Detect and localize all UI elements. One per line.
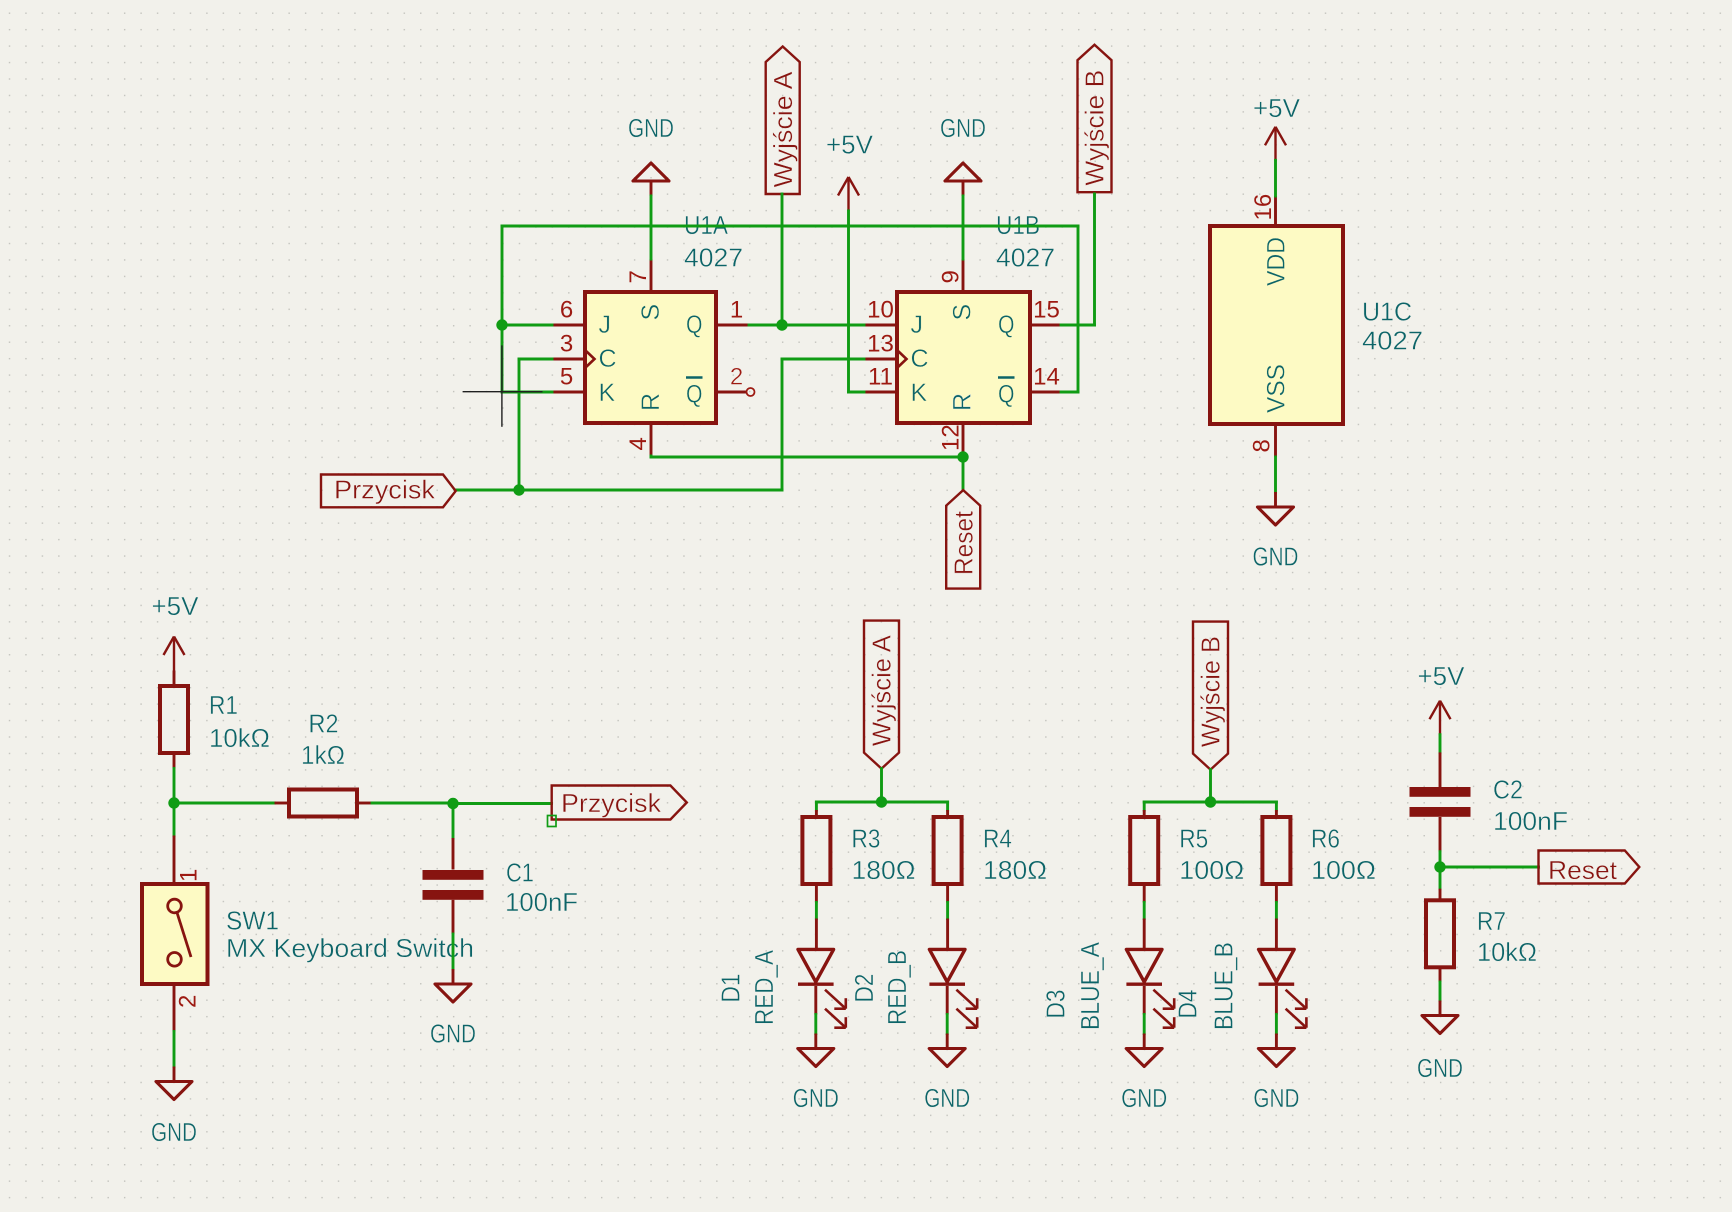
junction Wyjście A split bbox=[876, 796, 887, 807]
wire D2 to GND bbox=[946, 1015, 949, 1034]
wire reset node down to label bbox=[962, 457, 965, 490]
wire R7 to GND bbox=[1439, 982, 1442, 1001]
ground symbol below D3 bbox=[1121, 1034, 1167, 1114]
svg-text:12: 12 bbox=[938, 424, 965, 451]
wire R5 to D3 bbox=[1143, 903, 1146, 919]
svg-text:R: R bbox=[949, 393, 977, 411]
svg-text:D2: D2 bbox=[849, 974, 879, 1003]
D1 anode pin bbox=[815, 919, 818, 950]
power symbol +5V above R1 bbox=[152, 591, 200, 671]
C2 top pin bbox=[1439, 752, 1442, 787]
svg-text:S: S bbox=[637, 304, 665, 321]
svg-text:10kΩ: 10kΩ bbox=[1477, 937, 1537, 967]
U1A pin 3 (C clock) bbox=[552, 331, 585, 360]
LED D4 (BLUE_B) bbox=[1259, 949, 1307, 1027]
junction reset node at U1B pin 12 bbox=[957, 451, 968, 462]
svg-text:7: 7 bbox=[625, 270, 652, 283]
resistor R6 body bbox=[1262, 817, 1290, 884]
ground symbol below R7 bbox=[1417, 1001, 1463, 1084]
svg-text:4027: 4027 bbox=[996, 243, 1055, 273]
svg-text:SW1: SW1 bbox=[226, 906, 279, 936]
D1 cathode pin bbox=[814, 986, 817, 1015]
wire GND to U1B pin 9 bbox=[962, 196, 965, 259]
svg-text:4027: 4027 bbox=[1362, 326, 1423, 356]
svg-text:13: 13 bbox=[867, 331, 894, 358]
svg-text:+5V: +5V bbox=[826, 130, 874, 160]
svg-text:R6: R6 bbox=[1311, 824, 1340, 854]
svg-text:R1: R1 bbox=[209, 690, 238, 720]
wire Wyjście B label down bbox=[1093, 194, 1096, 325]
svg-text:GND: GND bbox=[151, 1117, 197, 1147]
C2 bottom pin bbox=[1439, 817, 1442, 852]
resistor R3 body bbox=[802, 817, 830, 884]
svg-text:C2: C2 bbox=[1493, 775, 1523, 805]
svg-text:GND: GND bbox=[1253, 542, 1299, 572]
U1C pin 8 (VSS) bbox=[1249, 424, 1276, 457]
svg-text:100Ω: 100Ω bbox=[1179, 855, 1244, 885]
svg-text:5: 5 bbox=[560, 364, 573, 391]
wire U1A J/K feedback top horizontal bbox=[502, 225, 1078, 228]
R7 top pin bbox=[1439, 889, 1442, 901]
R5 bottom pin bbox=[1143, 884, 1146, 903]
junction R1/R2/SW1 node bbox=[168, 797, 179, 808]
R2 right pin bbox=[357, 802, 372, 805]
ground symbol above U1B pin 9 bbox=[940, 113, 986, 196]
global label Reset (right) bbox=[1539, 851, 1640, 886]
U1A pin 6 (J) bbox=[552, 297, 585, 326]
svg-text:GND: GND bbox=[430, 1019, 476, 1049]
svg-text:Reset: Reset bbox=[1548, 855, 1618, 885]
global label Wyjście A (top) bbox=[766, 47, 800, 195]
mouse cursor crosshair bbox=[463, 345, 543, 426]
U1B pin name Q-bar bbox=[998, 378, 1015, 409]
junction R2/C1/Przycisk bbox=[447, 798, 458, 809]
resistor R1 body bbox=[160, 686, 188, 753]
svg-text:100Ω: 100Ω bbox=[1311, 855, 1376, 885]
svg-text:D4: D4 bbox=[1173, 990, 1203, 1019]
wire label A to junction bbox=[880, 769, 883, 802]
U1B pin 15 (Q) bbox=[1030, 297, 1063, 326]
svg-text:C1: C1 bbox=[506, 858, 534, 888]
resistor R2 body bbox=[289, 790, 357, 817]
resistor R4 body bbox=[934, 817, 962, 884]
junction Q of U1A / label A node bbox=[776, 319, 787, 330]
wire Przycisk horizontal bbox=[456, 489, 782, 492]
capacitor C1 bbox=[423, 870, 484, 900]
junction Wyjście B split bbox=[1205, 796, 1216, 807]
wire Wyjście A label down to Q node bbox=[781, 194, 784, 325]
SW1 pin 2 bbox=[174, 984, 202, 1032]
svg-text:R2: R2 bbox=[309, 709, 339, 739]
svg-text:GND: GND bbox=[1121, 1083, 1167, 1113]
svg-text:16: 16 bbox=[1250, 194, 1277, 221]
wire U1C pin 8 to GND bbox=[1274, 457, 1277, 492]
IC U1B body (4027 dual JK flip-flop, unit B) bbox=[897, 292, 1030, 423]
wire feedback vertical right (to U1B Q-bar) bbox=[1077, 226, 1080, 392]
svg-text:9: 9 bbox=[938, 270, 965, 283]
junction at U1A J node bbox=[496, 319, 507, 330]
svg-text:+5V: +5V bbox=[152, 591, 200, 621]
svg-text:11: 11 bbox=[868, 364, 893, 391]
svg-text:Wyjście A: Wyjście A bbox=[867, 634, 897, 746]
svg-text:1: 1 bbox=[730, 297, 743, 324]
resistor R5 body bbox=[1130, 817, 1158, 884]
U1B pin 14 (Q-bar) bbox=[1030, 364, 1063, 393]
wire clock A vertical bbox=[518, 359, 521, 490]
svg-text:10kΩ: 10kΩ bbox=[209, 723, 270, 753]
switch SW1 body (MX keyboard switch) bbox=[142, 884, 208, 984]
svg-text:180Ω: 180Ω bbox=[852, 855, 916, 885]
svg-text:Wyjście B: Wyjście B bbox=[1196, 636, 1226, 747]
svg-text:R3: R3 bbox=[852, 824, 881, 854]
svg-text:RED_A: RED_A bbox=[749, 949, 779, 1025]
svg-text:15: 15 bbox=[1033, 297, 1060, 324]
global label Wyjście B (bottom) bbox=[1193, 622, 1228, 770]
wire junction to Reset label bbox=[1440, 866, 1539, 869]
R3 top pin bbox=[815, 810, 818, 817]
wire R4 to D2 bbox=[946, 903, 949, 919]
wire Wyjście B to U1B pin 15 bbox=[1061, 324, 1095, 327]
svg-text:2: 2 bbox=[730, 364, 743, 391]
power symbol +5V above C2 bbox=[1418, 661, 1466, 735]
wire to U1B pin 13 bbox=[782, 358, 864, 361]
R1 bottom pin bbox=[173, 753, 176, 769]
svg-text:Wyjście A: Wyjście A bbox=[768, 71, 798, 188]
wire R2 to C1 junction bbox=[372, 802, 454, 805]
svg-text:6: 6 bbox=[560, 297, 573, 324]
SW1 pin 1 bbox=[174, 836, 203, 900]
wire +5V to C2 bbox=[1439, 735, 1442, 753]
R6 top pin bbox=[1275, 810, 1278, 817]
wire SW1 pin 2 to GND bbox=[173, 1032, 176, 1067]
wire down to R3 bbox=[815, 802, 818, 810]
svg-text:GND: GND bbox=[628, 113, 674, 143]
wire R1 to junction bbox=[173, 769, 176, 804]
U1B pin 12 (R reset) bbox=[938, 423, 965, 456]
svg-text:Q: Q bbox=[998, 311, 1015, 339]
svg-text:VDD: VDD bbox=[1263, 237, 1291, 286]
wire C1 to GND bbox=[452, 934, 455, 969]
svg-text:C: C bbox=[911, 345, 929, 373]
wire D3 to GND bbox=[1143, 1015, 1146, 1034]
svg-text:J: J bbox=[599, 311, 612, 339]
wire +5V to U1C pin 16 bbox=[1274, 160, 1277, 196]
ground symbol above U1A pin 7 bbox=[628, 113, 674, 196]
svg-text:1: 1 bbox=[176, 869, 203, 882]
C1 bottom pin bbox=[452, 900, 455, 934]
svg-text:U1C: U1C bbox=[1362, 297, 1412, 327]
svg-text:+5V: +5V bbox=[1418, 661, 1466, 691]
svg-text:10: 10 bbox=[867, 297, 894, 324]
svg-text:BLUE_B: BLUE_B bbox=[1209, 942, 1239, 1030]
ground symbol below SW1 bbox=[151, 1067, 197, 1148]
U1A pin 7 (S set) bbox=[625, 259, 652, 292]
D3 cathode pin bbox=[1143, 986, 1146, 1015]
LED D1 (RED_A) bbox=[798, 949, 846, 1027]
wire C2 to junction/R7 bbox=[1439, 852, 1442, 889]
wire R6 to D4 bbox=[1275, 903, 1278, 919]
IC U1C body (4027 power unit) bbox=[1210, 226, 1343, 424]
junction C2/R7/Reset bbox=[1434, 861, 1445, 872]
capacitor C2 bbox=[1410, 787, 1471, 817]
D2 anode pin bbox=[946, 919, 949, 950]
R5 top pin bbox=[1143, 810, 1146, 817]
svg-text:J: J bbox=[911, 311, 924, 339]
global label Przycisk (left, feeds clock wire) bbox=[321, 475, 456, 508]
svg-text:R4: R4 bbox=[983, 824, 1012, 854]
ground symbol below D2 bbox=[924, 1034, 970, 1114]
svg-text:+5V: +5V bbox=[1253, 93, 1301, 123]
U1B pin 10 (J) bbox=[864, 297, 897, 326]
ground symbol below D4 bbox=[1253, 1034, 1299, 1114]
svg-text:VSS: VSS bbox=[1263, 364, 1291, 413]
R2 left pin bbox=[275, 802, 290, 805]
wire left vertical J-K of U1A bbox=[501, 226, 504, 392]
svg-text:8: 8 bbox=[1249, 439, 1276, 452]
wire label B to junction bbox=[1209, 770, 1212, 802]
svg-text:Wyjście B: Wyjście B bbox=[1080, 70, 1110, 186]
svg-text:4: 4 bbox=[625, 437, 652, 450]
svg-text:Przycisk: Przycisk bbox=[334, 475, 436, 505]
wire down to R6 bbox=[1275, 802, 1278, 810]
svg-text:GND: GND bbox=[924, 1083, 970, 1113]
svg-text:2: 2 bbox=[175, 995, 202, 1008]
svg-text:GND: GND bbox=[1253, 1083, 1299, 1113]
svg-text:Q: Q bbox=[686, 311, 703, 339]
U1C pin 16 (VDD) bbox=[1250, 194, 1277, 226]
svg-text:180Ω: 180Ω bbox=[983, 855, 1047, 885]
IC U1A body (4027 dual JK flip-flop, unit A) bbox=[585, 292, 716, 423]
C1 top pin bbox=[452, 838, 455, 870]
svg-text:GND: GND bbox=[1417, 1053, 1463, 1083]
svg-text:MX Keyboard Switch: MX Keyboard Switch bbox=[226, 933, 474, 963]
wire clock B vertical bbox=[781, 359, 784, 490]
wire junction down to C1 bbox=[452, 804, 455, 839]
U1A pin name Q-bar bbox=[686, 378, 703, 409]
wire to U1A pin 6 bbox=[502, 324, 552, 327]
svg-text:3: 3 bbox=[560, 331, 573, 358]
svg-text:100nF: 100nF bbox=[1493, 806, 1568, 836]
junction Przycisk / clock A bbox=[513, 484, 524, 495]
svg-text:R: R bbox=[637, 393, 665, 411]
wire U1A Q to U1B J bbox=[749, 324, 864, 327]
wire U1A clock from node bbox=[519, 358, 552, 361]
wire +5V down to K of U1B (vertical) bbox=[847, 211, 850, 392]
U1A pin 5 (K) bbox=[552, 364, 585, 393]
D3 anode pin bbox=[1143, 919, 1146, 950]
power symbol +5V (to U1B pin 11) bbox=[826, 130, 874, 212]
U1A pin 2 (Q-bar) with unconnected-end circle bbox=[716, 364, 755, 397]
wire D4 to GND bbox=[1275, 1015, 1278, 1034]
U1A pin 1 (Q) bbox=[716, 297, 749, 326]
wire R3 to D1 bbox=[815, 903, 818, 919]
wire down to R4 bbox=[946, 802, 949, 810]
ground symbol below U1C bbox=[1253, 492, 1299, 572]
svg-text:K: K bbox=[599, 379, 616, 407]
svg-text:C: C bbox=[599, 345, 617, 373]
wire down to R5 bbox=[1143, 802, 1146, 810]
svg-text:R7: R7 bbox=[1477, 906, 1506, 936]
U1B pin 13 (C clock) bbox=[864, 331, 897, 360]
svg-text:BLUE_A: BLUE_A bbox=[1075, 941, 1105, 1030]
U1B pin 11 (K) bbox=[864, 364, 897, 393]
wire to U1A pin 5 bbox=[502, 391, 552, 394]
R4 top pin bbox=[946, 810, 949, 817]
R4 bottom pin bbox=[946, 884, 949, 903]
U1A pin 4 (R reset) bbox=[625, 423, 652, 456]
LED D3 (BLUE_A) bbox=[1126, 949, 1174, 1027]
svg-text:R5: R5 bbox=[1179, 824, 1208, 854]
svg-text:Q: Q bbox=[686, 381, 703, 409]
wire junction to R2 bbox=[174, 802, 275, 805]
ground symbol below D1 bbox=[793, 1034, 839, 1114]
wire B split horizontal bbox=[1144, 801, 1276, 804]
svg-text:D1: D1 bbox=[716, 974, 746, 1003]
global label Wyjście B (top) bbox=[1078, 45, 1112, 193]
svg-text:S: S bbox=[949, 304, 977, 321]
U1B pin 9 (S set) bbox=[938, 259, 965, 292]
wire U1A pin 4 reset horizontal bbox=[651, 456, 963, 459]
R1 top pin bbox=[173, 671, 176, 687]
global label Reset (below U1B) bbox=[946, 490, 980, 588]
R3 bottom pin bbox=[815, 884, 818, 903]
svg-text:D3: D3 bbox=[1041, 990, 1071, 1019]
wire junction to Przycisk label bbox=[453, 802, 552, 805]
svg-text:4027: 4027 bbox=[684, 243, 743, 273]
svg-text:K: K bbox=[911, 379, 928, 407]
LED D2 (RED_B) bbox=[929, 949, 977, 1027]
svg-text:100nF: 100nF bbox=[505, 887, 578, 917]
D4 cathode pin bbox=[1275, 986, 1278, 1015]
D2 cathode pin bbox=[946, 986, 949, 1015]
power symbol +5V above U1C bbox=[1253, 93, 1301, 161]
svg-text:RED_B: RED_B bbox=[882, 950, 912, 1025]
resistor R7 body bbox=[1426, 900, 1454, 967]
svg-text:1kΩ: 1kΩ bbox=[301, 740, 345, 770]
ground symbol below C1 bbox=[430, 969, 476, 1049]
wire U1A pin 4 stub bbox=[650, 456, 653, 457]
R6 bottom pin bbox=[1275, 884, 1278, 903]
svg-text:14: 14 bbox=[1033, 364, 1060, 391]
svg-text:Przycisk: Przycisk bbox=[561, 788, 662, 818]
global label Przycisk (bottom, output of divider) bbox=[548, 786, 687, 827]
global label Wyjście A (bottom) bbox=[864, 621, 899, 769]
wire junction down to SW1 bbox=[173, 803, 176, 836]
svg-text:GND: GND bbox=[940, 113, 986, 143]
wire A split horizontal bbox=[816, 801, 947, 804]
svg-text:Reset: Reset bbox=[948, 510, 978, 575]
wire to U1B pin 14 bbox=[1061, 391, 1078, 394]
svg-text:GND: GND bbox=[793, 1083, 839, 1113]
wire GND to U1A pin 7 bbox=[650, 196, 653, 259]
svg-text:Q: Q bbox=[998, 381, 1015, 409]
R7 bottom pin bbox=[1439, 967, 1442, 982]
wire D1 to GND bbox=[814, 1015, 817, 1034]
wire +5V corner to U1B pin 11 bbox=[849, 391, 865, 394]
D4 anode pin bbox=[1275, 919, 1278, 950]
